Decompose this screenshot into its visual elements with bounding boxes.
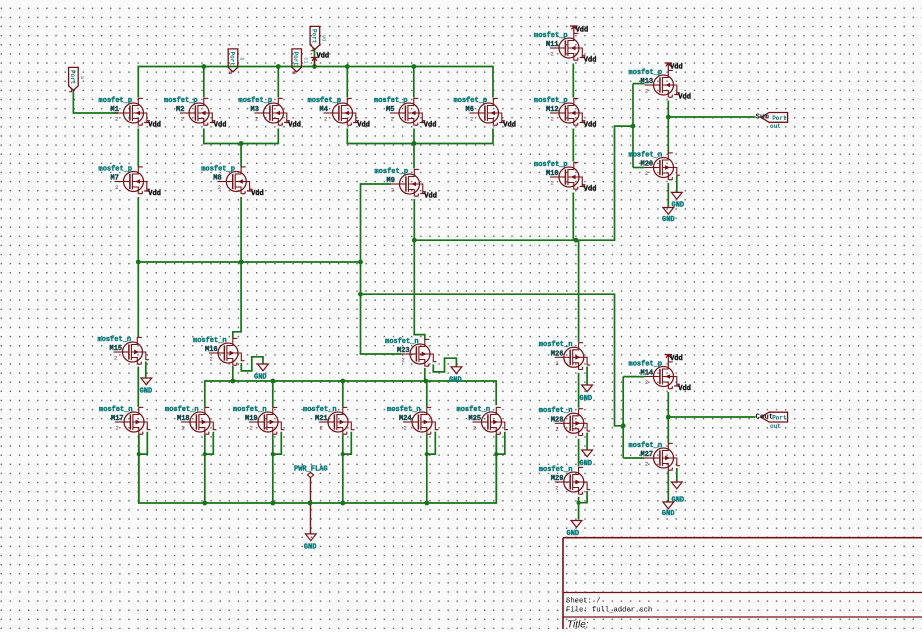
junction y294 on M9 gate riser [358,292,363,297]
svg-text:M25: M25 [469,415,482,423]
svg-text:M14: M14 [641,370,654,378]
svg-text:Vdd: Vdd [678,385,691,393]
junction top bus / T4 [345,64,350,69]
svg-text:mosfet_n: mosfet_n [303,406,337,414]
svg-text:Port: Port [310,29,317,44]
power Vdd at bulk of M8 [247,190,264,199]
transistor M5 (mosfet_p) [390,98,425,126]
svg-text:File: full_adder.sch: File: full_adder.sch [566,607,652,615]
ground M20 bulk [671,192,684,209]
junction top bus / T3 [276,64,281,69]
junction top bus / Vdd port [312,64,317,69]
wire middle nmos stack a [578,373,580,408]
transistor M17 (mosfet_n) [115,407,150,435]
title block frame [563,538,922,629]
junction ground bus / M18 [202,501,207,506]
svg-text:Vdd: Vdd [148,190,161,198]
junction ground bus / M19 [270,501,275,506]
wire M8 drain down with jog to M16 [233,197,241,338]
svg-text:mosfet_n: mosfet_n [457,406,491,414]
wire bus381 drop to M19 [272,381,274,407]
transistor M4 (mosfet_p) [324,98,359,126]
svg-text:2: 2 [250,425,253,432]
svg-text:out: out [770,123,781,130]
port cin (input) [292,49,308,73]
junction M29 bulk loop [577,501,581,505]
transistor M1 (mosfet_p) [115,98,150,126]
svg-text:2: 2 [551,180,554,187]
svg-text:mosfet_p: mosfet_p [629,69,663,77]
port b (input) [228,49,244,73]
junction ground bus / M21 [340,501,345,506]
power Vdd at bulk of M7 [144,190,161,199]
power Vdd above M14 [665,355,683,364]
svg-text:mosfet_n: mosfet_n [539,341,573,349]
wire M15 bulk to GND [145,362,147,379]
svg-text:2: 2 [182,425,185,432]
wire T4 top pin to bus [346,67,348,98]
transistor M16 (mosfet_n) [209,338,244,366]
svg-text:a: a [79,76,85,79]
port Cout (output) [756,412,788,430]
svg-text:2: 2 [210,356,213,363]
svg-text:ci: ci [302,57,308,63]
svg-text:2: 2 [645,88,648,95]
svg-text:2: 2 [391,116,394,123]
svg-text:Vdd: Vdd [148,122,161,130]
wire M27 source to GND [667,471,669,502]
svg-text:2: 2 [115,184,118,191]
power Vdd above M11 [570,26,588,35]
junction y240 / middle stack [574,238,579,243]
svg-text:Port: Port [228,52,235,67]
power Vdd above M13 [665,63,683,72]
wire T3 top pin to bus [277,67,279,98]
wire top Vdd bus [138,67,493,98]
power Vdd at bulk of M11 [580,56,597,65]
transistor M26 (mosfet_n) [555,342,590,370]
transistor M9 (mosfet_p) [391,169,426,197]
svg-text:M21: M21 [315,415,328,423]
wire M21 source to ground bus [342,435,344,503]
wire cout gate column [622,377,624,458]
wire rail y294 to cout gate riser [361,294,624,426]
wire left column row3 to row4 [137,367,139,407]
svg-text:GND: GND [567,530,580,538]
svg-text:2: 2 [255,116,258,123]
wire M26 bulk to GND [586,367,588,386]
junction bus381 / M19 [270,379,275,384]
svg-text:2: 2 [218,184,221,191]
wire M21 bulk loop [343,432,352,454]
svg-text:mosfet_n: mosfet_n [629,151,663,159]
wire M20 bulk to GND [676,176,678,193]
power Vdd at bulk of M4 [353,121,370,130]
junction sum gate node [631,124,636,129]
svg-text:GND: GND [254,374,267,382]
svg-text:M29: M29 [551,475,564,483]
svg-text:mosfet_n: mosfet_n [165,406,199,414]
svg-text:Vdd: Vdd [288,122,301,130]
svg-text:Vdd: Vdd [357,122,370,130]
svg-text:vd: vd [321,35,327,41]
junction bus381 / M23-M24 [423,379,428,384]
transistor M2 (mosfet_p) [180,98,215,126]
wire M27 bulk to GND [676,468,678,482]
svg-text:mosfet_p: mosfet_p [201,165,235,173]
svg-text:M24: M24 [399,415,412,423]
wire node2 segment A [204,129,278,144]
svg-text:mosfet_p: mosfet_p [99,97,133,105]
wire bus381 drop to M24 [426,381,428,407]
transistor M29 (mosfet_n) [555,467,590,495]
svg-text:Vdd: Vdd [670,355,683,363]
svg-text:2: 2 [402,357,405,364]
wire M23 bulk staircase [433,358,456,372]
svg-text:M27: M27 [641,451,654,459]
svg-text:Vdd: Vdd [214,122,227,130]
svg-text:GND: GND [580,460,593,468]
svg-text:GND: GND [662,216,675,224]
svg-text:mosfet_n: mosfet_n [98,336,132,344]
ground M27 source [662,502,675,518]
transistor M3 (mosfet_p) [255,98,290,126]
power Vdd at bulk of M5 [420,121,437,130]
transistor M15 (mosfet_n) [114,337,149,365]
svg-text:M2: M2 [176,106,184,114]
svg-text:M12: M12 [546,106,559,114]
transistor M10 (mosfet_p) [550,162,585,190]
transistor M12 (mosfet_p) [550,98,585,126]
transistor M25 (mosfet_n) [473,407,508,435]
power Vdd at top bus junction [311,53,329,67]
svg-text:M11: M11 [546,41,559,49]
transistor M11 (mosfet_p) [550,33,585,61]
svg-text:M26: M26 [551,350,564,358]
svg-text:Vdd: Vdd [503,122,516,130]
svg-text:2: 2 [555,485,558,492]
power Vdd at bulk of M9 [420,192,437,201]
transistor M20 (mosfet_n) [645,153,680,181]
svg-text:2: 2 [114,355,117,362]
svg-text:M16: M16 [205,346,218,354]
svg-text:mosfet_p: mosfet_p [454,97,488,105]
wire mid rail y262 [138,261,360,263]
power Vdd at bulk of M14 [674,385,691,394]
svg-text:mosfet_p: mosfet_p [308,97,342,105]
wire M14 gate stub [623,376,644,378]
svg-text:2: 2 [645,170,648,177]
wire rail y240 to sum gate riser [414,126,633,240]
wire T5 drain through to M9 [413,129,415,169]
ground below M26 bulk [580,385,593,403]
junction bus381 / M21 [340,379,345,384]
svg-text:mosfet_n: mosfet_n [539,466,573,474]
svg-text:Vdd: Vdd [584,122,597,130]
svg-text:2: 2 [555,360,558,367]
wire M20 source to GND [667,183,669,208]
svg-text:mosfet_p: mosfet_p [164,97,198,105]
junction M19 bulk loop [271,452,275,456]
svg-text:M23: M23 [397,347,410,355]
PWR_FLAG pin to ground bus [310,477,312,503]
wire M13 gate stub [633,83,644,85]
svg-text:GND: GND [580,395,593,403]
wire M29 source to GND [578,497,580,520]
svg-text:M20: M20 [641,161,654,169]
ground M20 source [662,208,675,224]
wire M9 drain down with jog to M23 [414,199,425,339]
svg-text:mosfet_n: mosfet_n [387,406,421,414]
wire M18 bulk loop [205,432,214,454]
transistor M14 (mosfet_p) [645,362,680,390]
svg-text:Sum: Sum [756,114,770,122]
wire M9 gate riser [361,184,402,354]
wire cout output [668,416,755,418]
svg-text:Port: Port [292,52,299,67]
wire M19 source to ground bus [272,435,274,503]
wire M17 bulk loop [139,432,148,454]
wire M17 source to ground bus [138,435,140,503]
svg-text:2: 2 [320,425,323,432]
svg-text:M28: M28 [551,416,564,424]
wire M19 bulk loop [273,432,282,454]
svg-text:M10: M10 [546,170,559,178]
svg-text:Vdd: Vdd [576,27,589,35]
power Vdd at bulk of M2 [210,121,227,130]
junction M25 bulk loop [494,452,498,456]
svg-text:M8: M8 [213,175,221,183]
svg-text:M13: M13 [641,78,654,86]
power Vdd at bulk of M1 [144,121,161,130]
svg-text:M5: M5 [386,106,394,114]
svg-text:2: 2 [115,116,118,123]
wire M23 source to bus381 [424,368,426,381]
svg-text:2: 2 [645,379,648,386]
wire M18 source to ground bus [204,435,206,503]
power Vdd at bulk of M10 [580,185,597,194]
svg-text:M17: M17 [111,415,124,423]
wire M29 bulk loop [579,491,588,503]
svg-text:M6: M6 [466,106,474,114]
svg-text:Vdd: Vdd [670,64,683,72]
svg-text:mosfet_n: mosfet_n [233,406,267,414]
svg-text:2: 2 [181,116,184,123]
svg-text:2: 2 [116,425,119,432]
svg-text:mosfet_p: mosfet_p [374,97,408,105]
svg-text:mosfet_p: mosfet_p [534,161,568,169]
svg-text:M4: M4 [320,106,328,114]
svg-text:Port: Port [69,70,76,85]
svg-text:2: 2 [645,461,648,468]
transistor M23 (mosfet_n) [401,339,436,367]
svg-text:mosfet_p: mosfet_p [534,32,568,40]
svg-text:GND: GND [140,388,153,396]
ground M27 bulk [671,482,684,505]
junction node2A / M8 [239,141,244,146]
svg-text:M18: M18 [177,415,190,423]
wire T5 top pin to bus [413,67,415,98]
junction sum output node [666,115,671,120]
svg-text:GND: GND [449,376,462,384]
junction M17 bulk loop [137,452,141,456]
svg-text:2: 2 [391,187,394,194]
svg-text:mosfet_n: mosfet_n [193,337,227,345]
wire sum gate column [632,84,634,168]
port a (input) [69,67,85,91]
svg-text:PWR_FLAG: PWR_FLAG [294,466,328,474]
svg-text:Cout: Cout [756,413,774,421]
transistor M19 (mosfet_n) [249,407,284,435]
junction y262 / M8 column [239,260,244,265]
wire sum output [668,116,755,118]
power Vdd at bulk of M3 [284,121,301,130]
junction ground bus / M24 [424,501,429,506]
svg-text:M3: M3 [251,106,259,114]
svg-text:mosfet_p: mosfet_p [375,168,409,176]
svg-text:M19: M19 [245,415,258,423]
svg-text:Port: Port [772,415,787,422]
wire middle pmos stack a [572,64,574,98]
ground below PWR_FLAG [304,534,317,551]
svg-text:mosfet_p: mosfet_p [629,360,663,368]
wire rail y240 to middle nmos [578,240,580,342]
wire bus381 drop to M21 [342,381,344,407]
wire M28 bulk to GND [586,433,588,451]
svg-text:2: 2 [551,116,554,123]
ground for M16 bulk [254,364,268,382]
power Vdd at bulk of M12 [580,121,597,130]
wire T2 top pin to bus [203,67,205,98]
junction top bus / T2 [201,64,206,69]
svg-text:M9: M9 [387,177,395,185]
wire M16 source to bus381 [232,366,234,381]
wire sum node column [667,101,669,153]
transistor M8 (mosfet_p) [217,167,252,195]
junction ground bus / PWR_FLAG [308,501,313,506]
svg-text:b: b [239,57,245,60]
wire M25 source to ground bus [495,435,497,503]
svg-text:Vdd: Vdd [424,193,437,201]
svg-text:2: 2 [473,425,476,432]
transistor M6 (mosfet_p) [470,98,505,126]
junction y240 / M9 drain column [412,238,417,243]
transistor M21 (mosfet_n) [319,407,354,435]
wire M1 drain to M7 stack [137,129,139,167]
junction bus381 / M16 source [230,379,235,384]
wire M7 drain down left column [137,197,139,337]
svg-text:mosfet_p: mosfet_p [99,165,133,173]
svg-text:Port: Port [772,115,787,122]
svg-text:GND: GND [662,510,675,518]
svg-text:mosfet_p: mosfet_p [239,97,273,105]
svg-text:M1: M1 [111,106,119,114]
wire M20 gate stub [633,167,644,169]
junction cout gate node [621,423,626,428]
junction M18 bulk loop [203,452,207,456]
svg-text:mosfet_n: mosfet_n [99,406,133,414]
svg-text:mosfet_n: mosfet_n [539,407,573,415]
wire middle pmos stack b [572,129,574,162]
svg-text:Vdd: Vdd [251,190,264,198]
svg-text:Vdd: Vdd [584,186,597,194]
wire M24 source to ground bus [426,435,428,503]
ground below M29 source [567,521,582,538]
wire cout node column [667,392,669,443]
svg-text:2: 2 [324,116,327,123]
transistor M28 (mosfet_n) [555,408,590,436]
svg-text:Vdd: Vdd [678,94,691,102]
svg-text:mosfet_p: mosfet_p [534,97,568,105]
transistor M24 (mosfet_n) [403,407,438,435]
PWR_FLAG symbol [294,466,328,478]
junction y262 / left column [136,260,141,265]
svg-text:mosfet_n: mosfet_n [385,338,419,346]
wire M25 bulk loop [496,432,505,454]
junction node2B / T5-M9 [412,141,417,146]
svg-text:2: 2 [470,116,473,123]
wire middle pmos to rail y240 [572,193,574,241]
wire M16 bulk staircase [241,357,263,371]
power Vdd at bulk of M6 [499,121,516,130]
transistor M27 (mosfet_n) [645,443,680,471]
junction M24 bulk loop [425,452,429,456]
junction top bus / T5 [411,64,416,69]
wire M27 gate stub [623,457,644,459]
svg-text:Vdd: Vdd [584,57,597,65]
junction cout output node [666,415,671,420]
svg-text:Vdd: Vdd [317,53,330,61]
wire Vdd flag stub [314,49,316,67]
svg-text:mosfet_n: mosfet_n [629,442,663,450]
junction M21 bulk loop [341,452,345,456]
power Vdd at bulk of M13 [674,93,691,102]
svg-text:M15: M15 [110,345,123,353]
svg-text:Title:: Title: [567,620,589,630]
port Sum (output) [756,113,788,131]
transistor M18 (mosfet_n) [181,407,216,435]
wire node2 segment B [347,129,493,144]
wire M8 top pin drop [240,144,242,167]
wire bus y381 [205,381,496,407]
ground below M28 bulk [580,450,593,468]
ground below M15 bulk [140,378,153,396]
svg-text:GND: GND [304,543,317,551]
svg-text:M7: M7 [111,175,119,183]
wire port a to M1 gate [73,90,118,114]
svg-text:Sheet: /: Sheet: / [566,598,601,606]
port vdd [310,26,326,50]
svg-text:Vdd: Vdd [424,122,437,130]
wire ground bus y503 [139,435,497,503]
pin of bottom GND symbol [310,503,312,534]
transistor M13 (mosfet_p) [645,70,680,98]
svg-text:2: 2 [555,426,558,433]
svg-text:2: 2 [551,51,554,58]
transistor M7 (mosfet_p) [115,167,150,195]
svg-text:out: out [770,423,781,430]
wire middle nmos stack b [578,439,580,467]
wire M24 bulk loop [427,432,436,454]
junction y262 end on M9 gate riser [358,260,363,265]
ground for M23 bulk [449,367,462,385]
svg-text:2: 2 [404,425,407,432]
